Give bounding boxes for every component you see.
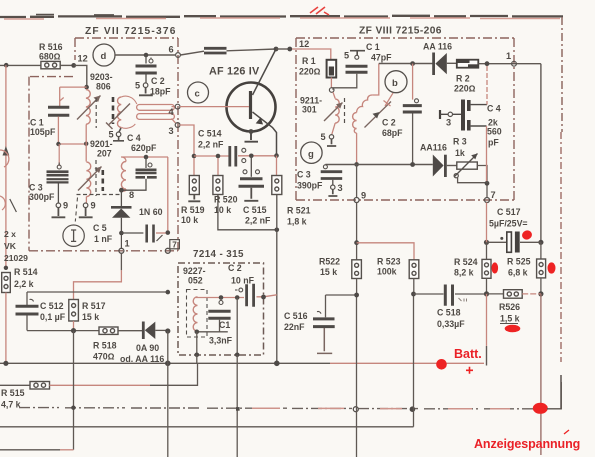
svg-text:7: 7: [172, 241, 177, 250]
wire C3 to pin 9 ground: [57, 184, 59, 204]
pin 1: [512, 61, 517, 66]
svg-text:10 k: 10 k: [214, 205, 231, 215]
capacitor C4 620pF: [145, 157, 147, 168]
svg-text:052: 052: [188, 276, 203, 286]
wire node7 down to C517 node: [486, 203, 488, 243]
svg-text:10 nF: 10 nF: [231, 276, 255, 286]
capacitor C518 0,33uF (series): [445, 285, 452, 306]
wire collector node to ZFVIII pin12: [276, 48, 290, 50]
circle b linkage: [385, 93, 393, 106]
wire 1N60 to C5 node: [120, 218, 122, 233]
svg-text:68pF: 68pF: [382, 128, 403, 138]
wire node1 elbow to R517: [120, 253, 122, 270]
svg-text:9: 9: [63, 201, 68, 211]
svg-text:390pF: 390pF: [297, 181, 323, 191]
svg-text:6,8 k: 6,8 k: [508, 268, 528, 278]
capacitor C3 390pF: [323, 165, 327, 169]
node 7 pin: [165, 248, 170, 253]
svg-text:C 1: C 1: [366, 42, 380, 52]
dash-dot line y=408 (Anzeige): [19, 408, 534, 409]
svg-text:pF: pF: [488, 138, 499, 148]
svg-text:9201-: 9201-: [90, 139, 113, 149]
svg-text:AA 116: AA 116: [423, 42, 452, 52]
wire t2 right top to C4 row: [121, 157, 168, 162]
capacitor C2 18pF: [145, 55, 147, 64]
svg-text:5: 5: [135, 81, 140, 91]
circle d marker: [93, 44, 115, 66]
svg-text:R 525: R 525: [507, 257, 531, 267]
wire transformer1 bottom to transformer2 top: [85, 125, 87, 162]
svg-text:100k: 100k: [377, 267, 397, 277]
svg-text:3,3nF: 3,3nF: [209, 336, 233, 346]
detector wire row y=164.5: [325, 164, 432, 166]
red mark on R526: [505, 325, 521, 333]
svg-text:1 nF: 1 nF: [94, 234, 113, 244]
9211 core dashed: [344, 98, 346, 126]
circle b marker: [385, 71, 407, 93]
svg-text:R522: R522: [319, 257, 340, 267]
svg-text:2,2 nF: 2,2 nF: [198, 140, 224, 150]
resistor R520: [217, 158, 219, 176]
svg-text:c: c: [195, 89, 200, 100]
svg-text:15 k: 15 k: [320, 267, 337, 277]
svg-text:4,7 k: 4,7 k: [1, 400, 21, 410]
9211 left arrow: [324, 103, 343, 122]
wire pin1 corner down x=541: [540, 64, 542, 243]
svg-text:0,1 µF: 0,1 µF: [40, 312, 66, 322]
9201-207 core (dashed): [95, 160, 97, 196]
module box ZF VIII (dash-dot border): [296, 38, 514, 200]
svg-text:3: 3: [169, 126, 174, 136]
svg-text:470Ω: 470Ω: [93, 352, 115, 362]
wires 7214 to bottom edge: [197, 298, 237, 355]
svg-text:18pF: 18pF: [150, 87, 171, 97]
svg-text:VK: VK: [4, 241, 17, 251]
svg-text:R 519: R 519: [181, 205, 205, 215]
svg-text:AF 126 IV: AF 126 IV: [209, 66, 260, 78]
resistor R522: [352, 260, 362, 279]
resistor R1: [327, 60, 337, 78]
svg-text:7: 7: [491, 190, 496, 200]
svg-text:C 3: C 3: [297, 170, 311, 180]
svg-text:1: 1: [506, 51, 511, 61]
case pin ground: [249, 129, 254, 134]
wire row diode 0A90: [27, 330, 99, 332]
phi mark C1 (7214): [220, 298, 222, 301]
coupling capacitor (series bars): [204, 48, 227, 53]
pin 3: [175, 123, 180, 128]
node R520/R521 bottom: [275, 228, 280, 233]
svg-text:Anzeigespannung: Anzeigespannung: [474, 437, 580, 451]
svg-text:9: 9: [361, 191, 366, 201]
svg-text:C 2: C 2: [151, 76, 165, 86]
svg-text:4: 4: [169, 107, 175, 117]
line y=427: [0, 426, 414, 428]
9211 pin 5 ground: [332, 123, 335, 134]
resistor R514: [2, 273, 11, 293]
svg-text:Batt.: Batt.: [454, 347, 482, 361]
pin 9 (C3): [56, 203, 61, 208]
capacitor C2 68pF: [412, 64, 414, 100]
resistor R3 (preset): [457, 162, 478, 169]
svg-text:C 518: C 518: [437, 308, 461, 318]
svg-text:1: 1: [125, 239, 130, 249]
svg-text:12: 12: [299, 39, 309, 49]
wire R515 row: [0, 384, 30, 386]
resistor R518: [99, 327, 118, 334]
wire x=541 down to Anzeige row: [540, 294, 542, 455]
collector junction node: [274, 47, 279, 52]
svg-text:220Ω: 220Ω: [454, 84, 476, 94]
svg-text:1,5 k: 1,5 k: [500, 314, 520, 324]
9203-806 left winding arrow: [77, 96, 101, 120]
wire C1 row to diode AA116: [379, 63, 433, 65]
base wire from pin4: [180, 106, 249, 108]
svg-text:R 517: R 517: [82, 301, 106, 311]
circle g marker: [301, 142, 322, 163]
capacitor C1 3,3nF (7214): [208, 311, 230, 318]
svg-text:C1: C1: [219, 320, 230, 330]
9201-207 left arrow: [78, 167, 102, 191]
coupling loops to pins 4/3: [137, 105, 175, 111]
module box 7214-315 (dash-dot border): [178, 263, 264, 355]
resistor R523: [409, 260, 419, 279]
9203-806 core (dashed): [95, 98, 97, 128]
red Batt dot: [436, 359, 447, 370]
svg-text:21029: 21029: [4, 253, 28, 263]
mechanical dashed link to circle I: [75, 198, 77, 222]
svg-text:8,2 k: 8,2 k: [454, 268, 474, 278]
node 1 pin: [120, 235, 122, 248]
svg-text:ZF VII 7215-376: ZF VII 7215-376: [85, 26, 177, 37]
wire node8 down to 1N60: [120, 190, 122, 207]
transformer 9203-806 left winding: [86, 90, 90, 125]
wire x=486 down to Batt: [486, 294, 488, 346]
resistor R515: [30, 382, 50, 390]
coil 7214: [193, 297, 197, 331]
wire R516 to pin 12: [60, 64, 73, 66]
transistor AF126 circle: [227, 83, 276, 132]
svg-text:6: 6: [169, 45, 174, 55]
svg-text:10 k: 10 k: [181, 215, 198, 225]
inner dashed coil box: [187, 290, 208, 338]
red mark on R525: [548, 262, 556, 273]
node row y=294: [484, 291, 489, 296]
resistor R526: [487, 293, 504, 295]
node R514 top: [4, 266, 8, 270]
svg-text:R 515: R 515: [1, 388, 25, 398]
svg-text:C 516: C 516: [284, 311, 308, 321]
wire R1 to node circle: [330, 78, 332, 88]
svg-text:3: 3: [338, 183, 343, 193]
resistor R521: [276, 156, 278, 176]
transformer 9203-806 right winding: [118, 97, 122, 127]
capacitor C515: [250, 156, 252, 177]
svg-text:R 520: R 520: [214, 195, 238, 205]
svg-text:7214 - 315: 7214 - 315: [193, 249, 244, 260]
svg-text:2,2 nF: 2,2 nF: [245, 216, 271, 226]
svg-text:R 523: R 523: [377, 257, 401, 267]
wire C1 bottom to junction: [58, 117, 86, 145]
svg-text:5µF/25V=: 5µF/25V=: [489, 219, 528, 229]
resistor R516: [41, 61, 60, 68]
svg-text:47pF: 47pF: [371, 53, 392, 63]
svg-text:C 517: C 517: [497, 207, 521, 217]
svg-text:220Ω: 220Ω: [299, 67, 321, 77]
wire circle d to pin 6: [115, 54, 175, 56]
svg-text:C 4: C 4: [127, 133, 141, 143]
svg-text:300pF: 300pF: [29, 192, 55, 202]
9211 diagonal arrow: [365, 102, 392, 128]
outer border right edge: [561, 17, 563, 132]
line y=450 bottom left: [0, 449, 60, 451]
svg-text:8: 8: [129, 190, 134, 200]
node transformer top: [84, 85, 89, 90]
svg-text:3: 3: [446, 118, 451, 128]
svg-text:9227-: 9227-: [183, 266, 206, 276]
svg-text:od. AA 116: od. AA 116: [120, 354, 164, 364]
wire C514 to C515 node: [238, 155, 277, 157]
svg-text:9: 9: [91, 201, 96, 211]
arrowhead on antenna line: [3, 146, 10, 156]
svg-text:R 2: R 2: [456, 74, 470, 84]
vertical x=356 lower: [356, 295, 358, 457]
wire 9211 top tap to C1 row: [372, 64, 379, 96]
svg-text:5: 5: [344, 51, 349, 61]
svg-text:C 3: C 3: [29, 183, 43, 193]
svg-text:b: b: [392, 78, 398, 89]
svg-text:301: 301: [302, 105, 317, 115]
svg-text:5: 5: [109, 130, 114, 140]
red mark on R524: [492, 262, 499, 273]
svg-text:C 1: C 1: [30, 118, 44, 128]
vertical x=413 lower with elbow: [413, 294, 415, 427]
left-edge partial glyphs: [0, 150, 9, 167]
ground below pin 9: [52, 208, 66, 218]
svg-text:R 1: R 1: [302, 56, 316, 66]
svg-text:R 514: R 514: [14, 267, 38, 277]
red plus: [466, 367, 473, 374]
resistor R517: [69, 300, 79, 322]
svg-text:1,8 k: 1,8 k: [287, 217, 307, 227]
wire R514 bottom to rail: [5, 293, 7, 364]
verticals below rail: [74, 331, 168, 457]
ground below t2 pin 9: [79, 208, 93, 218]
svg-text:680Ω: 680Ω: [39, 52, 61, 62]
wire pin12 to R1: [292, 49, 331, 60]
resistor R524: [486, 242, 488, 259]
resistor R2: [457, 60, 479, 68]
wire antenna vertical left: [5, 65, 7, 268]
svg-text:C 2: C 2: [382, 118, 396, 128]
wire node9 down to R522: [356, 203, 358, 260]
wire pin12 jog to transformer top: [74, 65, 87, 87]
diode 0A90/AA116: [142, 322, 145, 340]
wire R521 bottom rail down: [276, 195, 278, 364]
svg-text:620pF: 620pF: [131, 143, 157, 153]
svg-text:15 k: 15 k: [82, 312, 99, 322]
9211 right winding: [353, 113, 357, 134]
node 7: [485, 198, 490, 203]
red Anzeige junction blob: [533, 403, 548, 414]
wire input left to R516: [0, 64, 41, 66]
wire R2 to pin1: [478, 63, 541, 65]
svg-text:C 514: C 514: [198, 129, 222, 139]
wire R523 to C518: [414, 293, 444, 295]
tuning capacitor C4 element: [461, 100, 465, 131]
svg-text:5: 5: [321, 132, 326, 142]
top scan border line: [0, 15, 563, 18]
svg-text:ZF VIII 7215-206: ZF VIII 7215-206: [359, 26, 442, 37]
capacitor C3 300pF: [58, 144, 60, 166]
capacitor C2 10nF (series): [247, 284, 254, 307]
svg-text:1k: 1k: [455, 148, 465, 158]
diode 1N60: [111, 206, 132, 209]
resistor R525: [540, 242, 542, 259]
svg-text:207: 207: [97, 149, 112, 159]
wire R522 top to R523 top: [357, 243, 414, 260]
capacitor C512 0,1uF: [26, 292, 28, 305]
svg-text:C 515: C 515: [243, 205, 267, 215]
node 9: [356, 165, 358, 198]
node R519 top: [192, 154, 197, 159]
wire to C514: [194, 155, 229, 157]
node 8: [119, 188, 124, 193]
collector lead: [253, 49, 277, 95]
resistor R519: [193, 158, 195, 176]
wire node7 up to transformer2 output: [167, 157, 169, 230]
emitter lead with arrow: [253, 112, 277, 156]
svg-text:0A 90: 0A 90: [136, 343, 159, 353]
module box ZF VII (dash-dot border): [29, 38, 178, 251]
svg-text:C 5: C 5: [93, 223, 107, 233]
transformer 9201-207 left winding: [86, 162, 90, 197]
wire R522 bottom row to C516: [326, 294, 357, 296]
svg-text:9203-: 9203-: [90, 72, 113, 82]
svg-text:R 518: R 518: [93, 341, 117, 351]
svg-text:R 3: R 3: [453, 137, 467, 147]
pin 9 (t2): [83, 203, 88, 208]
svg-text:C 4: C 4: [487, 104, 501, 114]
wire C1 top: [60, 87, 87, 107]
red mark on C517: [521, 229, 533, 241]
svg-text:105pF: 105pF: [30, 127, 56, 137]
top scan line pink fringe: [4, 18, 560, 19]
transformer 9211-301 left winding: [333, 92, 335, 98]
pin 5 (between transformers): [116, 132, 121, 137]
capacitor C514 (series plates): [230, 146, 236, 167]
svg-text:R 521: R 521: [287, 206, 311, 216]
transformer 9201-207 right winding: [121, 162, 126, 190]
node junction left edge: [4, 63, 9, 68]
wire t2 left bottom to pin 9: [85, 197, 87, 204]
svg-text:C 2: C 2: [228, 263, 242, 273]
svg-text:22nF: 22nF: [284, 322, 305, 332]
svg-text:d: d: [101, 51, 107, 62]
pin 4: [175, 104, 180, 109]
svg-text:12: 12: [78, 54, 88, 64]
main rail y=363: [0, 362, 330, 364]
svg-text:0,33µF: 0,33µF: [437, 319, 465, 329]
capacitor C1 105pF: [48, 107, 69, 115]
svg-text:2 x: 2 x: [4, 229, 16, 239]
svg-text:1N 60: 1N 60: [139, 207, 163, 217]
svg-text:R 524: R 524: [454, 257, 478, 267]
svg-text:806: 806: [96, 82, 111, 92]
right winding arrow: [109, 104, 130, 125]
svg-text:560: 560: [487, 127, 502, 137]
wire row C512/R517 top: [27, 291, 168, 293]
node C517 left / R524 top: [484, 240, 489, 245]
wire 9211 bottom to detector row: [356, 133, 358, 164]
red pencil marks top: [310, 7, 329, 15]
capacitor C516: [325, 295, 327, 317]
pin 6: [176, 53, 181, 58]
base bar: [249, 91, 252, 119]
pin 12 node: [71, 63, 76, 68]
svg-text:g: g: [308, 149, 314, 160]
svg-text:AA116: AA116: [420, 143, 447, 153]
phi mark C2 (7214): [239, 288, 243, 292]
circle I marker: [63, 225, 84, 246]
svg-text:R 516: R 516: [39, 42, 63, 52]
svg-text:R526: R526: [499, 302, 520, 312]
Anzeige elbow to right border: [547, 382, 561, 409]
capacitor C5 1nF (series): [121, 232, 143, 234]
wire pin3 to C514 row: [180, 125, 194, 156]
svg-text:C 512: C 512: [40, 301, 64, 311]
circle c marker: [188, 82, 209, 103]
wire coil top row: [196, 297, 244, 298]
svg-text:2,2 k: 2,2 k: [14, 279, 34, 289]
wire pin6 to coupling cap to collector node: [180, 49, 276, 55]
